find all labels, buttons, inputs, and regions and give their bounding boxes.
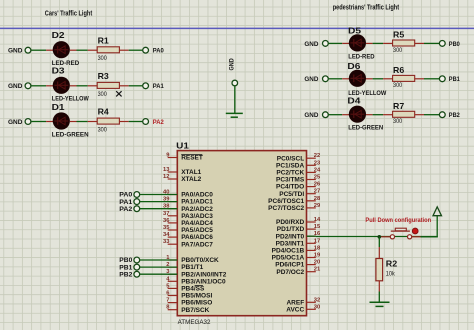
svg-text:18: 18: [314, 245, 321, 251]
svg-text:PC6/TOSC1: PC6/TOSC1: [268, 198, 304, 205]
wire: [140, 259, 177, 261]
svg-text:PA0/ADC0: PA0/ADC0: [181, 192, 213, 199]
wire PD2 to switch net: [307, 235, 316, 237]
wire LED to resistor: [366, 78, 373, 80]
svg-text:PA1/ADC1: PA1/ADC1: [181, 199, 213, 206]
wire LED to resistor: [366, 114, 373, 116]
wire: [140, 208, 177, 210]
wire switch to VCC: [412, 236, 421, 238]
terminal PA0: [143, 47, 149, 53]
wire resistor to terminal: [415, 78, 424, 80]
svg-text:PA6/ADC6: PA6/ADC6: [181, 234, 213, 241]
svg-text:D4: D4: [347, 96, 360, 106]
svg-text:22: 22: [314, 153, 320, 159]
LED D2 LED-RED: [53, 41, 70, 58]
svg-text:PB5/MOSI: PB5/MOSI: [181, 293, 212, 300]
svg-text:PB6/MISO: PB6/MISO: [181, 300, 212, 307]
svg-text:GND: GND: [8, 119, 22, 126]
svg-text:26: 26: [314, 182, 321, 188]
svg-text:7: 7: [166, 298, 169, 304]
svg-text:LED-GREEN: LED-GREEN: [52, 133, 89, 139]
svg-text:XTAL2: XTAL2: [181, 176, 201, 183]
pin 16 PD2/INT0: [307, 235, 316, 237]
pin 39 PA1/ADC1: [168, 201, 178, 203]
pin 8 PB7/SCK: [168, 309, 178, 311]
svg-text:R1: R1: [98, 35, 109, 45]
svg-text:PD1/TXD: PD1/TXD: [277, 226, 305, 233]
pin 18 PD4/OC1B: [307, 249, 316, 251]
svg-text:GND: GND: [8, 48, 22, 55]
svg-text:37: 37: [163, 211, 169, 217]
resistor R3 300: [97, 82, 119, 88]
svg-text:12: 12: [163, 174, 169, 180]
svg-text:PA1: PA1: [119, 199, 132, 206]
pin 3 PB2/AIN0/INT2: [168, 273, 178, 275]
svg-text:PA3/ADC3: PA3/ADC3: [181, 213, 213, 220]
power VCC arrow: [436, 216, 438, 238]
wire GND to LED: [31, 49, 46, 51]
svg-text:19: 19: [314, 253, 321, 259]
svg-text:U1: U1: [176, 141, 189, 151]
svg-text:PB2: PB2: [119, 271, 132, 278]
svg-text:33: 33: [163, 239, 170, 245]
pin 6 PB5/MOSI: [168, 295, 178, 297]
wire resistor to terminal: [119, 121, 128, 123]
pin 30 AVCC: [307, 308, 316, 310]
svg-text:PD6/ICP1: PD6/ICP1: [275, 262, 304, 269]
wire: [140, 266, 177, 268]
svg-text:21: 21: [314, 267, 321, 273]
ground symbol: [226, 112, 243, 114]
svg-text:PC7/TOSC2: PC7/TOSC2: [268, 205, 304, 212]
svg-text:GND: GND: [8, 83, 22, 90]
pin 17 PD3/INT1: [307, 242, 316, 244]
terminal PB2: [439, 112, 445, 118]
pin 25 PC3/TMS: [307, 179, 316, 181]
cross mark: [116, 91, 121, 96]
svg-text:R2: R2: [386, 258, 398, 268]
svg-text:PA2: PA2: [119, 206, 132, 213]
svg-text:D6: D6: [347, 61, 360, 71]
wire LED to resistor: [70, 85, 77, 87]
terminal PB0: [439, 41, 445, 47]
pin 7 PB6/MISO: [168, 302, 178, 304]
svg-text:D5: D5: [348, 25, 361, 35]
wire to ground: [234, 86, 236, 113]
svg-text:PB2: PB2: [449, 112, 460, 119]
pin 28 PC6/TOSC1: [307, 200, 316, 202]
svg-text:25: 25: [314, 175, 321, 181]
svg-text:D3: D3: [52, 66, 65, 76]
resistor R2 10k: [376, 259, 383, 281]
pin 37 PA3/ADC3: [168, 215, 178, 217]
svg-text:R4: R4: [98, 107, 109, 117]
wire LED to resistor: [70, 121, 77, 123]
svg-text:PC2/TCK: PC2/TCK: [276, 170, 304, 177]
svg-text:29: 29: [314, 203, 321, 209]
svg-text:GND: GND: [230, 58, 236, 71]
svg-text:PA2: PA2: [153, 119, 164, 126]
terminal PA2: [143, 119, 149, 125]
svg-text:28: 28: [314, 196, 321, 202]
svg-text:PD5/OC1A: PD5/OC1A: [272, 255, 305, 262]
switch actuator dot: [412, 228, 418, 234]
svg-text:GND: GND: [304, 112, 318, 119]
svg-text:pedestrians' Traffic Light: pedestrians' Traffic Light: [333, 4, 400, 11]
pin 14 PD0/RXD: [307, 221, 316, 223]
wire: [140, 194, 177, 196]
pin 23 PC1/SDA: [307, 164, 316, 166]
svg-text:14: 14: [314, 217, 321, 223]
svg-text:Pull Down configuration: Pull Down configuration: [365, 217, 431, 224]
svg-text:AREF: AREF: [286, 299, 304, 306]
terminal PB1: [439, 76, 445, 82]
svg-text:300: 300: [98, 56, 108, 62]
pin 36 PA4/ADC4: [168, 222, 178, 224]
LED D6 LED-YELLOW: [349, 70, 366, 87]
junction node: [378, 235, 382, 239]
svg-text:LED-RED: LED-RED: [348, 54, 375, 60]
svg-text:300: 300: [393, 119, 403, 125]
svg-text:RESET: RESET: [181, 155, 203, 162]
svg-text:300: 300: [98, 128, 108, 134]
svg-text:PB0: PB0: [449, 41, 460, 48]
svg-text:PC3/TMS: PC3/TMS: [276, 177, 305, 184]
svg-text:PB3/AIN1/OC0: PB3/AIN1/OC0: [181, 278, 226, 285]
pin 38 PA2/ADC2: [168, 208, 178, 210]
svg-text:PD7/OC2: PD7/OC2: [276, 269, 304, 276]
svg-text:Cars' Traffic Light: Cars' Traffic Light: [45, 10, 93, 17]
switch (push button): [381, 236, 390, 238]
svg-text:24: 24: [314, 167, 321, 173]
resistor R4 300: [97, 118, 119, 124]
svg-text:GND: GND: [304, 76, 318, 83]
svg-text:D2: D2: [52, 30, 65, 40]
wire resistor to terminal: [119, 49, 128, 51]
pin 24 PC2/TCK: [307, 171, 316, 173]
svg-text:PA4/ADC4: PA4/ADC4: [181, 220, 213, 227]
wire LED to resistor: [366, 42, 373, 44]
svg-text:30: 30: [314, 304, 320, 310]
wire GND to LED: [329, 42, 343, 44]
resistor R6 300: [393, 75, 415, 81]
pin 33 PA7/ADC7: [168, 243, 178, 245]
svg-text:PB0: PB0: [119, 257, 132, 264]
ground symbol (R2): [370, 301, 390, 303]
wire junction to R2: [378, 237, 380, 247]
svg-text:300: 300: [393, 48, 403, 54]
svg-text:ATMEGA32: ATMEGA32: [178, 320, 212, 326]
svg-text:PB7/SCK: PB7/SCK: [181, 307, 209, 314]
svg-text:R3: R3: [98, 71, 109, 81]
pin 9 RESET: [168, 157, 178, 159]
pin 1 PB0/T0/XCK: [168, 259, 178, 261]
svg-text:D1: D1: [52, 102, 65, 112]
wire resistor to terminal: [415, 42, 424, 44]
svg-text:PB0/T0/XCK: PB0/T0/XCK: [181, 257, 219, 264]
svg-text:AVCC: AVCC: [286, 306, 304, 313]
pin 26 PC4/TDO: [307, 186, 316, 188]
svg-text:20: 20: [314, 260, 320, 266]
svg-text:PD2/INT0: PD2/INT0: [276, 233, 305, 240]
svg-text:PB1: PB1: [449, 76, 460, 83]
svg-text:300: 300: [393, 83, 403, 89]
wire GND to LED: [329, 114, 343, 116]
svg-text:PA7/ADC7: PA7/ADC7: [181, 241, 213, 248]
svg-text:R7: R7: [393, 101, 404, 111]
wire resistor to terminal: [415, 114, 424, 116]
pin 5 PB4/SS: [168, 287, 178, 289]
pin 20 PD6/ICP1: [307, 264, 316, 266]
pin 19 PD5/OC1A: [307, 257, 316, 259]
LED D3 LED-YELLOW: [53, 77, 70, 94]
LED D5 LED-RED: [349, 34, 366, 51]
svg-text:PB2/AIN0/INT2: PB2/AIN0/INT2: [181, 271, 227, 278]
svg-text:PA5/ADC5: PA5/ADC5: [181, 227, 213, 234]
svg-text:PC1/SDA: PC1/SDA: [276, 162, 304, 169]
svg-text:PA1: PA1: [153, 83, 164, 90]
svg-text:PB4/SS: PB4/SS: [181, 286, 205, 293]
svg-text:35: 35: [163, 225, 170, 231]
svg-text:PB1/T1: PB1/T1: [181, 264, 203, 271]
svg-text:PD0/RXD: PD0/RXD: [276, 219, 304, 226]
wire LED to resistor: [70, 49, 77, 51]
svg-text:LED-GREEN: LED-GREEN: [348, 126, 383, 132]
svg-text:PA0: PA0: [153, 48, 164, 55]
pin 22 PC0/SCL: [307, 157, 316, 159]
wire: [140, 273, 177, 275]
pin 35 PA5/ADC5: [168, 229, 178, 231]
svg-text:36: 36: [163, 218, 170, 224]
LED D1 LED-GREEN: [53, 112, 70, 129]
svg-text:27: 27: [314, 189, 320, 195]
svg-text:GND: GND: [304, 41, 318, 48]
svg-text:XTAL1: XTAL1: [181, 169, 201, 176]
pin 15 PD1/TXD: [307, 228, 316, 230]
svg-text:PB1: PB1: [119, 264, 132, 271]
svg-text:23: 23: [314, 160, 321, 166]
resistor R1 300: [97, 47, 119, 53]
svg-text:13: 13: [163, 167, 170, 173]
svg-text:PD4/OC1B: PD4/OC1B: [272, 248, 305, 255]
svg-text:10k: 10k: [386, 272, 396, 278]
svg-text:32: 32: [314, 297, 320, 303]
svg-text:PA0: PA0: [119, 192, 132, 199]
pin 2 PB1/T1: [168, 266, 178, 268]
svg-text:PA2/ADC2: PA2/ADC2: [181, 206, 213, 213]
resistor R7 300: [393, 111, 415, 117]
wire GND to LED: [329, 78, 343, 80]
pin 13 XTAL1: [168, 171, 178, 173]
svg-text:PC0/SCL: PC0/SCL: [277, 155, 304, 162]
wire GND to LED: [31, 85, 46, 87]
resistor R5 300: [393, 40, 415, 46]
pin 40 PA0/ADC0: [168, 194, 178, 196]
svg-text:300: 300: [98, 92, 108, 98]
sheet border line: [0, 27, 474, 29]
wire GND to LED: [31, 121, 46, 123]
terminal PA1: [143, 83, 149, 89]
pin 34 PA6/ADC6: [168, 236, 178, 238]
LED D4 LED-GREEN: [349, 106, 366, 123]
svg-text:15: 15: [314, 224, 321, 230]
wire R2 to ground: [378, 281, 380, 292]
pin 29 PC7/TOSC2: [307, 207, 316, 209]
svg-text:R5: R5: [393, 30, 404, 40]
pin 27 PC5/TDI: [307, 193, 316, 195]
wire: [140, 201, 177, 203]
pin 4 PB3/AIN1/OC0: [168, 280, 178, 282]
svg-text:PC5/TDI: PC5/TDI: [279, 191, 304, 198]
pin 21 PD7/OC2: [307, 271, 316, 273]
pin 12 XTAL2: [168, 178, 178, 180]
wire resistor to terminal: [119, 85, 128, 87]
svg-text:PC4/TDO: PC4/TDO: [276, 184, 304, 191]
svg-text:PD3/INT1: PD3/INT1: [276, 240, 305, 247]
pin 32 AREF: [307, 301, 316, 303]
svg-text:34: 34: [163, 232, 170, 238]
svg-text:17: 17: [314, 238, 320, 244]
svg-text:R6: R6: [393, 65, 404, 75]
